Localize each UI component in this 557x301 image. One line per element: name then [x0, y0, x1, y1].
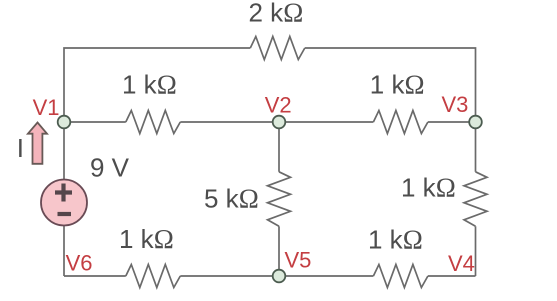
resistor 1 kOhm top-left [126, 111, 181, 134]
svg-text:I: I [17, 133, 24, 163]
svg-text:1 kΩ: 1 kΩ [370, 70, 425, 100]
wire V5 to R4 [279, 275, 373, 277]
resistor 1 kOhm bottom-right [373, 265, 428, 288]
svg-text:V3: V3 [442, 92, 469, 117]
resistor 5 kOhm middle vertical [268, 172, 291, 227]
wire V2 to R2 [279, 121, 373, 123]
svg-text:V1: V1 [33, 95, 60, 120]
svg-text:V5: V5 [285, 247, 312, 272]
node V3 [469, 116, 482, 129]
svg-text:V6: V6 [66, 251, 93, 276]
wire top-left to top resistor [64, 48, 250, 122]
wire R1 to V2 [180, 121, 279, 123]
svg-text:1 kΩ: 1 kΩ [368, 225, 423, 255]
svg-text:1 kΩ: 1 kΩ [119, 224, 174, 254]
node V1 [58, 116, 71, 129]
wire R3 to V5 [180, 275, 279, 277]
resistor 1 kOhm top-right [373, 111, 428, 134]
svg-text:5 kΩ: 5 kΩ [204, 184, 259, 214]
wire R4 to V4 [428, 275, 476, 277]
svg-text:1 kΩ: 1 kΩ [122, 70, 177, 100]
node V5 [273, 270, 286, 283]
wire V1 to R1 [64, 121, 126, 123]
wire V6 to R3 [64, 275, 126, 277]
node V2 [273, 116, 286, 129]
wire V3 down to R6 [475, 122, 477, 172]
wire V2 down to R5 [278, 122, 280, 172]
resistor 1 kOhm bottom-left [126, 265, 181, 288]
svg-text:1 kΩ: 1 kΩ [401, 173, 456, 203]
svg-text:9 V: 9 V [90, 153, 130, 183]
wire V1 down to source [63, 122, 65, 180]
resistor 2 kOhm top [250, 37, 304, 60]
resistor 1 kOhm right vertical [464, 172, 487, 227]
wire R5 to V5 [278, 226, 280, 276]
current arrow I [28, 123, 47, 164]
svg-text:V4: V4 [448, 251, 475, 276]
wire source to V6 [63, 225, 65, 276]
wire top resistor to V3 [305, 48, 476, 122]
svg-text:V2: V2 [265, 92, 292, 117]
wire R2 to V3 [428, 121, 476, 123]
voltage source V 9V [41, 180, 87, 226]
svg-text:2 kΩ: 2 kΩ [249, 0, 304, 28]
wire R6 to V4 [475, 226, 477, 276]
